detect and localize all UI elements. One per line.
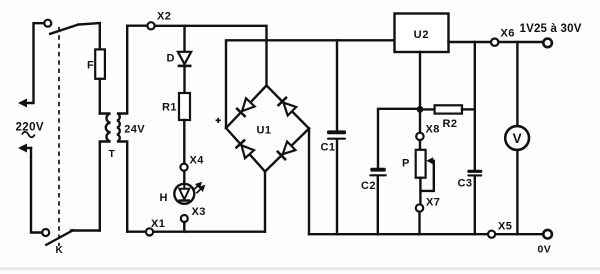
bridge diode D2 (top-right, toward top vertex) <box>278 97 297 116</box>
label P <box>402 157 410 169</box>
capacitor C3 <box>467 170 482 177</box>
bridge diode D1 (top-left, toward + vertex) <box>236 98 255 117</box>
wire P to X7 <box>419 178 421 205</box>
regulator U2 <box>395 14 449 53</box>
svg-text:P: P <box>402 157 410 169</box>
label U2 <box>414 29 430 41</box>
svg-text:X4: X4 <box>190 154 205 166</box>
bridge diode D3 (bottom-left, toward + vertex) <box>236 140 255 159</box>
svg-text:T: T <box>109 148 116 160</box>
node X8 terminal <box>416 133 423 140</box>
svg-text:24V: 24V <box>124 124 145 136</box>
node X4 terminal <box>180 164 187 171</box>
label X8 <box>426 124 440 136</box>
svg-text:F: F <box>87 59 94 71</box>
wire voltmeter to 0V rail <box>516 150 518 234</box>
switch K pole b (blade) <box>46 230 73 245</box>
wire X2 to bridge top vertex <box>155 26 267 86</box>
wire bridge bottom vertex to bottom rail <box>264 172 266 232</box>
svg-text:X1: X1 <box>151 218 165 230</box>
svg-text:C2: C2 <box>361 180 376 192</box>
arrow mains line 1 (220V input arrow) <box>18 99 27 108</box>
wire junction to R2 <box>420 108 435 110</box>
wire bridge - vertex down to 0V rail <box>308 129 310 235</box>
wire bottom rail left (AC return) <box>127 230 265 232</box>
wire junction to C2 branch <box>378 109 420 168</box>
voltmeter V <box>505 126 529 150</box>
output terminal 0V (banana jack) <box>543 230 552 239</box>
svg-text:1V25 à 30V: 1V25 à 30V <box>520 23 582 35</box>
svg-text:X6: X6 <box>501 27 515 39</box>
wire primary bottom to switch K pole b <box>71 229 100 231</box>
svg-text:U1: U1 <box>257 125 272 137</box>
svg-text:X5: X5 <box>498 221 512 233</box>
wire DC rail to C1 <box>336 40 338 130</box>
transformer T secondary winding <box>117 26 127 232</box>
label F <box>87 59 94 71</box>
label H <box>160 192 168 204</box>
svg-text:X3: X3 <box>192 206 206 218</box>
svg-text:U2: U2 <box>414 29 430 41</box>
wire bottom rail right (0V) <box>309 233 542 235</box>
label 1V25 a 30V <box>520 23 582 35</box>
wire C3 to 0V rail <box>474 177 476 235</box>
label K <box>56 245 64 256</box>
label 220V <box>16 122 44 134</box>
svg-text:X7: X7 <box>426 197 440 209</box>
svg-text:H: H <box>160 192 168 204</box>
node junction dot (U2 adj) <box>417 106 423 112</box>
dashed link line switch K <box>58 27 60 246</box>
wire C1 to 0V rail <box>336 140 338 234</box>
label 24V <box>124 124 145 136</box>
label X7 <box>426 197 440 209</box>
label C3 <box>458 177 473 189</box>
transformer T primary winding <box>100 114 111 231</box>
node X6 terminal <box>491 39 498 46</box>
wire diode D to R1 <box>183 66 185 93</box>
svg-text:R1: R1 <box>162 102 177 114</box>
label R1 <box>162 102 177 114</box>
output terminal + (banana jack) <box>543 39 552 48</box>
wire C2 to 0V rail <box>377 176 379 234</box>
switch K pole a (blade) <box>50 25 78 34</box>
resistor R1 <box>179 93 190 120</box>
wire X2 rail to diode D <box>183 26 185 52</box>
wire R1 to X4 <box>183 120 185 164</box>
svg-text:220V: 220V <box>16 122 44 134</box>
svg-text:0V: 0V <box>538 244 552 256</box>
wire R2 to output branch <box>462 108 475 110</box>
fuse F <box>95 49 105 78</box>
scan artifact gray band <box>0 267 600 270</box>
wire secondary to X2 <box>127 25 147 27</box>
node X5 terminal <box>488 231 495 238</box>
label X2 <box>157 11 171 23</box>
wire output rail down to C3 <box>474 42 476 170</box>
svg-text:X2: X2 <box>157 11 171 23</box>
potentiometer P body <box>416 150 426 178</box>
svg-text:C1: C1 <box>321 141 336 153</box>
wire X8 to potentiometer P <box>419 140 421 150</box>
label X4 <box>190 154 205 166</box>
wire X7 to 0V rail <box>418 212 420 235</box>
label + (bridge positive) <box>216 118 221 123</box>
wire X3 to bottom rail <box>183 222 185 232</box>
label U1 <box>257 125 272 137</box>
wire U2 adj pin down <box>419 52 421 107</box>
node switch S1a contact (top circle) <box>44 20 51 27</box>
label T <box>109 148 116 160</box>
svg-text:R2: R2 <box>443 118 458 130</box>
node switch S1b contact (bottom circle) <box>42 229 49 236</box>
label C1 <box>321 141 336 153</box>
arrow mains line 2 (220V input arrow) <box>18 144 31 153</box>
label AC sine symbol <box>22 132 35 138</box>
bridge U1 diamond edges <box>226 86 309 172</box>
svg-text:D: D <box>167 53 175 65</box>
wire fuse to transformer primary <box>99 79 101 114</box>
LED H <box>174 184 194 204</box>
wire switch contact to mains line 2 <box>31 148 42 233</box>
wire bridge + vertex up to DC rail <box>226 40 395 128</box>
wire U2 output rail <box>449 41 543 43</box>
wire switch blade to fuse <box>78 23 100 49</box>
capacitor C1 <box>327 130 346 139</box>
label X3 <box>192 206 206 218</box>
label X5 <box>498 221 512 233</box>
svg-text:V: V <box>513 131 522 146</box>
svg-text:X8: X8 <box>426 124 440 136</box>
diode D <box>178 52 192 66</box>
label D <box>167 53 175 65</box>
bridge diode D4 (bottom-right, toward bottom vertex) <box>277 142 296 161</box>
node X3 terminal <box>181 215 188 222</box>
potentiometer P wiper (arrow + link to bottom) <box>421 157 434 191</box>
wire mains line 1 (top-left vertical + horizontal to switch contact) <box>27 23 44 103</box>
label 0V <box>538 244 552 256</box>
wire X4 to LED H <box>183 171 185 184</box>
svg-text:C3: C3 <box>458 177 473 189</box>
node X7 terminal <box>416 204 423 211</box>
label X6 <box>501 27 515 39</box>
label C2 <box>361 180 376 192</box>
svg-text:K: K <box>56 245 64 256</box>
label X1 <box>151 218 165 230</box>
wire output rail to voltmeter <box>516 42 518 126</box>
label R2 <box>443 118 458 130</box>
capacitor C2 <box>369 168 387 177</box>
resistor R2 <box>435 105 462 113</box>
node X2 terminal <box>147 22 154 29</box>
wire X8 lead <box>419 112 421 133</box>
LED H emission arrows <box>193 183 204 193</box>
node X1 terminal <box>146 228 153 235</box>
